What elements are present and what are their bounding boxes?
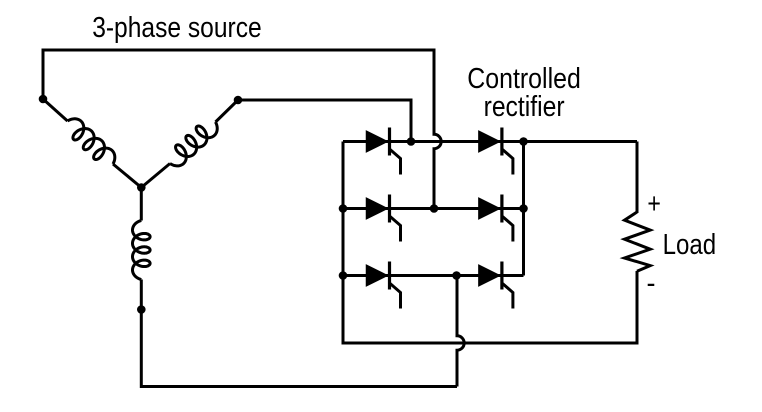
svg-text:Load: Load [663,229,717,261]
svg-text:-: - [647,268,656,300]
svg-text:3-phase source: 3-phase source [92,12,262,44]
svg-text:rectifier: rectifier [484,91,565,123]
svg-text:+: + [647,188,661,220]
